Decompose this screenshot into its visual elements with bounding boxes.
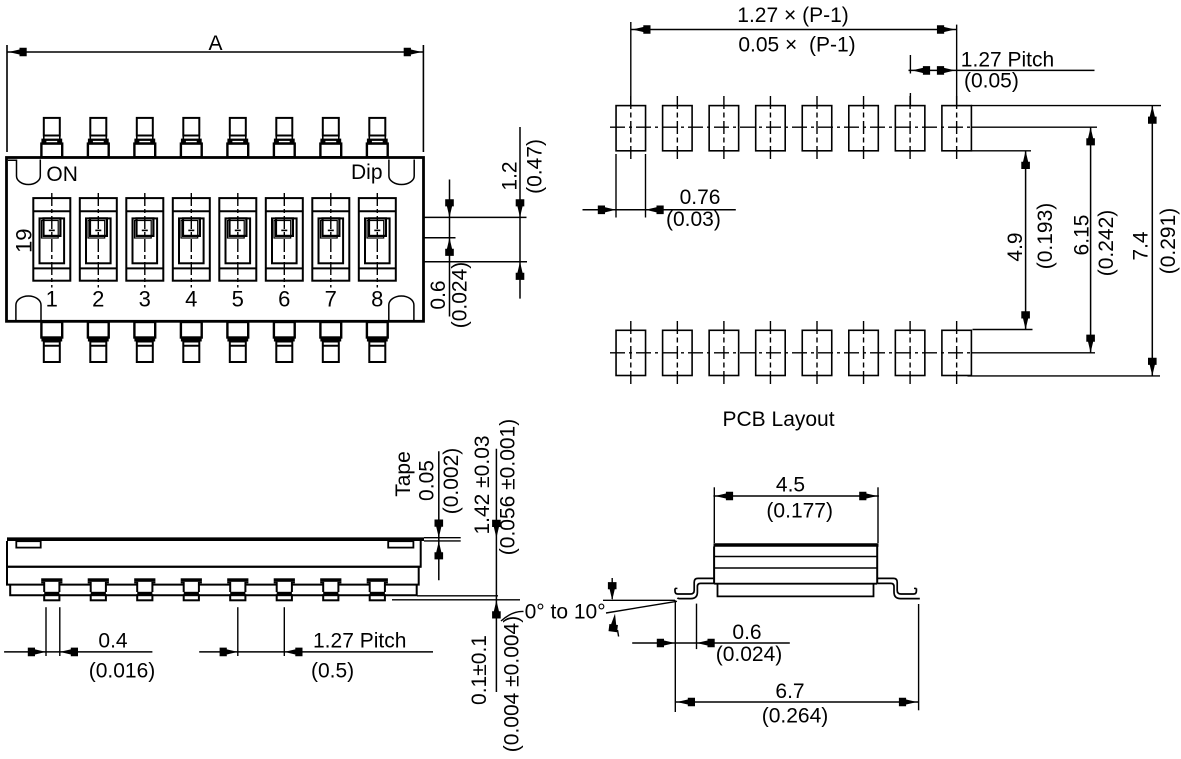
side view: flange bottom extension line bbox=[417, 595, 498, 597]
side view: rotated label (0.002) bbox=[440, 448, 463, 515]
pcb layout: label 6.15 bbox=[1071, 215, 1094, 256]
switch S4 number label bbox=[185, 287, 197, 312]
top view: dimension 0.6 label bbox=[427, 280, 450, 309]
svg-text:0° to 10°: 0° to 10° bbox=[525, 601, 606, 624]
switch S2 number label bbox=[92, 287, 104, 312]
pcb layout: label (0.05) bbox=[964, 70, 1019, 93]
section view: gull-wing lead left bbox=[675, 578, 714, 598]
switch S7 actuator bbox=[312, 193, 349, 288]
top view: leader line housing-bottom bbox=[424, 261, 528, 263]
svg-text:(0.5): (0.5) bbox=[311, 660, 354, 683]
side view: dimension 0.05 tape vertical line with arrows bbox=[435, 451, 444, 580]
pcb layout: dimension 1.27x(P-1) line with arrows bbox=[631, 25, 957, 34]
svg-text:1.27 Pitch: 1.27 Pitch bbox=[313, 630, 406, 653]
svg-text:3: 3 bbox=[139, 287, 151, 312]
pcb layout: dimension 6.15 vertical line with arrows bbox=[1086, 127, 1095, 353]
section view: label 0.6 bbox=[732, 621, 761, 644]
svg-text:(0.002): (0.002) bbox=[440, 448, 463, 515]
side view: label 0.4 bbox=[98, 630, 128, 653]
side view: tape notch right bbox=[388, 541, 413, 547]
side view: rotated label 1.42 +-0.03 bbox=[471, 435, 494, 534]
svg-text:(0.47): (0.47) bbox=[524, 139, 547, 194]
pcb layout: pad 8 top row bbox=[942, 96, 972, 161]
pcb layout: pad 9 bottom row bbox=[616, 321, 646, 386]
side view: tape edge extension lines bbox=[424, 538, 461, 541]
side view: pin 2 bbox=[88, 578, 109, 600]
pcb layout: pad 11 bottom row bbox=[709, 321, 739, 386]
top view: label Dip bbox=[351, 161, 383, 184]
svg-text:(0.264): (0.264) bbox=[762, 705, 829, 728]
pcb layout: dimension 1.27 pitch line with arrows bbox=[909, 55, 1095, 106]
svg-text:(0.056 ±0.001): (0.056 ±0.001) bbox=[497, 419, 520, 555]
pcb layout: right leader lines bbox=[968, 106, 1162, 376]
top view: pin 11 lower lead bbox=[134, 322, 155, 362]
top view: dimension A line with arrows bbox=[7, 48, 423, 57]
top view: dimension 1.2 label bbox=[499, 161, 522, 190]
svg-text:(0.193): (0.193) bbox=[1034, 203, 1057, 270]
top view: pin 5 upper lead bbox=[227, 118, 248, 157]
section view: dimension 4.5 line with arrows bbox=[713, 492, 879, 501]
svg-text:6.15: 6.15 bbox=[1071, 215, 1094, 256]
side view: pin 8 bbox=[367, 578, 388, 600]
section view: gull-wing lead right bbox=[877, 578, 919, 598]
switch S6 actuator bbox=[266, 193, 303, 288]
pcb layout: bottom row centerline bbox=[610, 352, 970, 354]
top view: pin 12 lower lead bbox=[181, 322, 202, 362]
switch S1 number label bbox=[46, 287, 58, 312]
side view: rotated label (0.004 +-0.004) bbox=[501, 616, 524, 752]
top view: corner dome bottom-right bbox=[389, 296, 414, 321]
side view: dimension 1.27 pitch line with outside arrows bbox=[199, 648, 433, 657]
side view: dimension 0.4 line with outside arrows bbox=[4, 648, 152, 657]
pcb layout: pad 3 top row bbox=[709, 96, 739, 161]
switch S2 actuator bbox=[80, 193, 117, 288]
pcb layout: pad 7 top row bbox=[895, 96, 925, 161]
svg-text:(0.016): (0.016) bbox=[89, 660, 156, 683]
svg-text:(0.05): (0.05) bbox=[964, 70, 1019, 93]
top view: pin 3 upper lead bbox=[134, 118, 155, 157]
svg-text:ON: ON bbox=[46, 163, 78, 186]
switch S3 actuator bbox=[126, 193, 163, 288]
section view: tape top line bbox=[714, 543, 879, 546]
svg-text:4.9: 4.9 bbox=[1004, 232, 1027, 261]
svg-text:0.05 × (P-1): 0.05 × (P-1) bbox=[738, 34, 855, 57]
svg-text:4.5: 4.5 bbox=[776, 474, 805, 497]
svg-text:7.4: 7.4 bbox=[1130, 231, 1153, 261]
top view: pin 14 lower lead bbox=[274, 322, 295, 362]
svg-text:(0.177): (0.177) bbox=[766, 500, 833, 523]
side view: dimension 1.42 / 0.1 vertical line with arrows bbox=[492, 449, 501, 692]
svg-text:(0.242): (0.242) bbox=[1095, 210, 1118, 277]
svg-text:7: 7 bbox=[325, 287, 337, 312]
side view: label (0.5) bbox=[311, 660, 354, 683]
top view: pin 16 lower lead bbox=[367, 322, 388, 362]
svg-text:5: 5 bbox=[232, 287, 244, 312]
pcb layout: label 4.9 bbox=[1004, 232, 1027, 261]
pcb layout: label 1.27 x (P-1) bbox=[737, 4, 848, 27]
side view: dimension 1.27 pitch extension lines bbox=[238, 607, 284, 656]
side view: pin 4 bbox=[181, 578, 202, 600]
side view: dimension 0.4 extension lines bbox=[46, 607, 60, 656]
section view: label (0.264) bbox=[762, 705, 829, 728]
svg-text:4: 4 bbox=[185, 287, 197, 312]
svg-text:0.1±0.1: 0.1±0.1 bbox=[468, 635, 491, 705]
svg-text:0.6: 0.6 bbox=[427, 280, 450, 309]
svg-text:1.27 Pitch: 1.27 Pitch bbox=[961, 49, 1054, 72]
svg-text:Dip: Dip bbox=[351, 161, 383, 184]
switch S3 number label bbox=[139, 287, 151, 312]
top view: dimension A extension lines bbox=[7, 45, 423, 152]
section view: label (0.177) bbox=[766, 500, 833, 523]
switch S8 number label bbox=[371, 287, 383, 312]
top view: pin 15 lower lead bbox=[320, 322, 341, 362]
top view: pin 7 upper lead bbox=[320, 118, 341, 157]
side view: tape top line bbox=[7, 537, 424, 541]
pcb layout: top row centerline bbox=[610, 126, 970, 128]
side view: bottom flange bbox=[10, 585, 417, 596]
top view: dimension label A bbox=[208, 32, 222, 55]
top view: pin 13 lower lead bbox=[227, 322, 248, 362]
svg-text:(0.291): (0.291) bbox=[1157, 208, 1180, 275]
top view: pin 4 upper lead bbox=[181, 118, 202, 157]
svg-text:Tape: Tape bbox=[392, 451, 415, 497]
pcb layout: dimension 7.4 vertical line with arrows bbox=[1148, 106, 1157, 376]
svg-text:0.4: 0.4 bbox=[98, 630, 128, 653]
side view: tape notch left bbox=[16, 541, 40, 547]
pcb layout: label 1.27 Pitch bbox=[961, 49, 1054, 72]
pcb layout: pad 10 bottom row bbox=[663, 321, 693, 386]
top view: package body outline bbox=[7, 158, 424, 322]
section view: 0-10 degree slanted line bbox=[606, 601, 677, 613]
switch S1 actuator bbox=[33, 193, 70, 288]
pcb layout: label (0.291) bbox=[1157, 208, 1180, 275]
svg-text:6.7: 6.7 bbox=[775, 680, 804, 703]
section view: label 4.5 bbox=[776, 474, 805, 497]
pcb layout: label 0.05 x (P-1) bbox=[738, 34, 855, 57]
section view: body outline bbox=[714, 547, 877, 584]
svg-text:8: 8 bbox=[371, 287, 383, 312]
pcb layout: pad 13 bottom row bbox=[802, 321, 832, 386]
side view: base layer bbox=[7, 567, 419, 585]
top view: leader line knob-top bbox=[424, 216, 527, 218]
switch S5 number label bbox=[232, 287, 244, 312]
switch S4 actuator bbox=[173, 193, 210, 288]
section view: label 0 to 10 degrees bbox=[525, 601, 606, 624]
top view: pin 9 lower lead bbox=[41, 322, 62, 362]
pcb layout: label (0.193) bbox=[1034, 203, 1057, 270]
pcb layout: pad 12 bottom row bbox=[756, 321, 786, 386]
side view: rotated label 0.1+-0.1 bbox=[468, 635, 491, 705]
section view: label (0.024) bbox=[716, 643, 783, 666]
switch S7 number label bbox=[325, 287, 337, 312]
side view: rotated label Tape bbox=[392, 451, 415, 497]
section view: dimension 0.6 line with outside arrows bbox=[632, 639, 790, 648]
pcb layout: dimension 0.76 extension lines bbox=[616, 154, 646, 218]
pcb layout: dimension 4.9 vertical line with arrows bbox=[1021, 151, 1030, 330]
pcb layout: pad 2 top row bbox=[663, 96, 693, 161]
top view: dimension 0.6 vertical line with arrows bbox=[445, 180, 454, 317]
pcb layout: label 7.4 bbox=[1130, 231, 1153, 261]
side view: body outline bbox=[7, 541, 421, 567]
pcb layout: label 0.76 bbox=[680, 186, 721, 209]
top view: pin 2 upper lead bbox=[88, 118, 109, 157]
pcb layout: label (0.03) bbox=[666, 208, 721, 231]
pcb layout: pad 4 top row bbox=[756, 96, 786, 161]
section view: angle dimension arrows bbox=[608, 578, 619, 637]
svg-text:0.05: 0.05 bbox=[416, 460, 439, 501]
top view: pin 10 lower lead bbox=[88, 322, 109, 362]
svg-text:(0.024): (0.024) bbox=[449, 262, 472, 329]
svg-text:1.42 ±0.03: 1.42 ±0.03 bbox=[471, 435, 494, 534]
switch S8 actuator bbox=[359, 193, 396, 288]
pcb layout: label (0.242) bbox=[1095, 210, 1118, 277]
pcb layout: pad 14 bottom row bbox=[849, 321, 879, 386]
pcb layout: title PCB Layout bbox=[723, 408, 835, 431]
top view: rotated label 19 bbox=[12, 228, 37, 252]
top view: pin 8 upper lead bbox=[367, 118, 388, 157]
side view: pin 5 bbox=[227, 578, 248, 600]
section view: dimension 4.5 extension lines bbox=[714, 487, 878, 543]
pcb layout: pad 16 bottom row bbox=[942, 321, 972, 386]
section view: seating plane line bbox=[603, 599, 675, 601]
svg-text:A: A bbox=[208, 32, 222, 55]
svg-text:2: 2 bbox=[92, 287, 104, 312]
side view: label (0.016) bbox=[89, 660, 156, 683]
top view: corner notch top-left bbox=[8, 160, 40, 185]
side view: rotated label (0.056 +-0.001) bbox=[497, 419, 520, 555]
side view: pin 3 bbox=[134, 578, 155, 600]
side view: rotated label 0.05 bbox=[416, 460, 439, 501]
side view: pin seating extension line bbox=[392, 599, 520, 601]
pcb layout: pad 1 top row bbox=[616, 96, 646, 161]
side view: pin 6 bbox=[274, 578, 295, 600]
top view: leader line knob-bottom bbox=[424, 237, 456, 239]
top view: dimension (0.47) label bbox=[524, 139, 547, 194]
top view: dimension 1.2 vertical line with arrows bbox=[516, 127, 525, 299]
top view: label ON bbox=[46, 163, 78, 186]
svg-text:1.2: 1.2 bbox=[499, 161, 522, 190]
svg-text:PCB Layout: PCB Layout bbox=[723, 408, 835, 431]
switch S5 actuator bbox=[219, 193, 256, 288]
section view: leader arc to angle note bbox=[501, 611, 524, 621]
side view: pin 1 bbox=[41, 578, 62, 600]
svg-text:1: 1 bbox=[46, 287, 58, 312]
svg-text:(0.024): (0.024) bbox=[716, 643, 783, 666]
top view: corner dome bottom-left bbox=[16, 296, 41, 321]
section view: label 6.7 bbox=[775, 680, 804, 703]
pcb layout: dimension 0.76 line with outside arrows bbox=[583, 206, 736, 215]
svg-text:(0.03): (0.03) bbox=[666, 208, 721, 231]
pcb layout: pad 15 bottom row bbox=[895, 321, 925, 386]
svg-text:6: 6 bbox=[278, 287, 290, 312]
section view: dimension 6.7 extension lines bbox=[675, 600, 918, 712]
top view: dimension (0.024) label bbox=[449, 262, 472, 329]
svg-text:(0.004 ±0.004): (0.004 ±0.004) bbox=[501, 616, 524, 752]
section view: dimension 0.6 extension line bbox=[696, 604, 698, 650]
pcb layout: pad 6 top row bbox=[849, 96, 879, 161]
section view: bottom slab bbox=[718, 584, 874, 597]
svg-text:0.6: 0.6 bbox=[732, 621, 761, 644]
top view: corner notch top-right bbox=[389, 160, 414, 185]
pcb layout: dimension 1.27x(P-1) extension lines bbox=[631, 22, 957, 106]
switch S6 number label bbox=[278, 287, 290, 312]
section view: dimension 6.7 line with arrows bbox=[675, 698, 918, 707]
top view: pin 1 upper lead bbox=[41, 118, 62, 157]
svg-text:0.76: 0.76 bbox=[680, 186, 721, 209]
pcb layout: pad 5 top row bbox=[802, 96, 832, 161]
side view: pin 7 bbox=[320, 578, 341, 600]
side view: label 1.27 Pitch bbox=[313, 630, 406, 653]
svg-text:1.27 × (P-1): 1.27 × (P-1) bbox=[737, 4, 848, 27]
top view: pin 6 upper lead bbox=[274, 118, 295, 157]
